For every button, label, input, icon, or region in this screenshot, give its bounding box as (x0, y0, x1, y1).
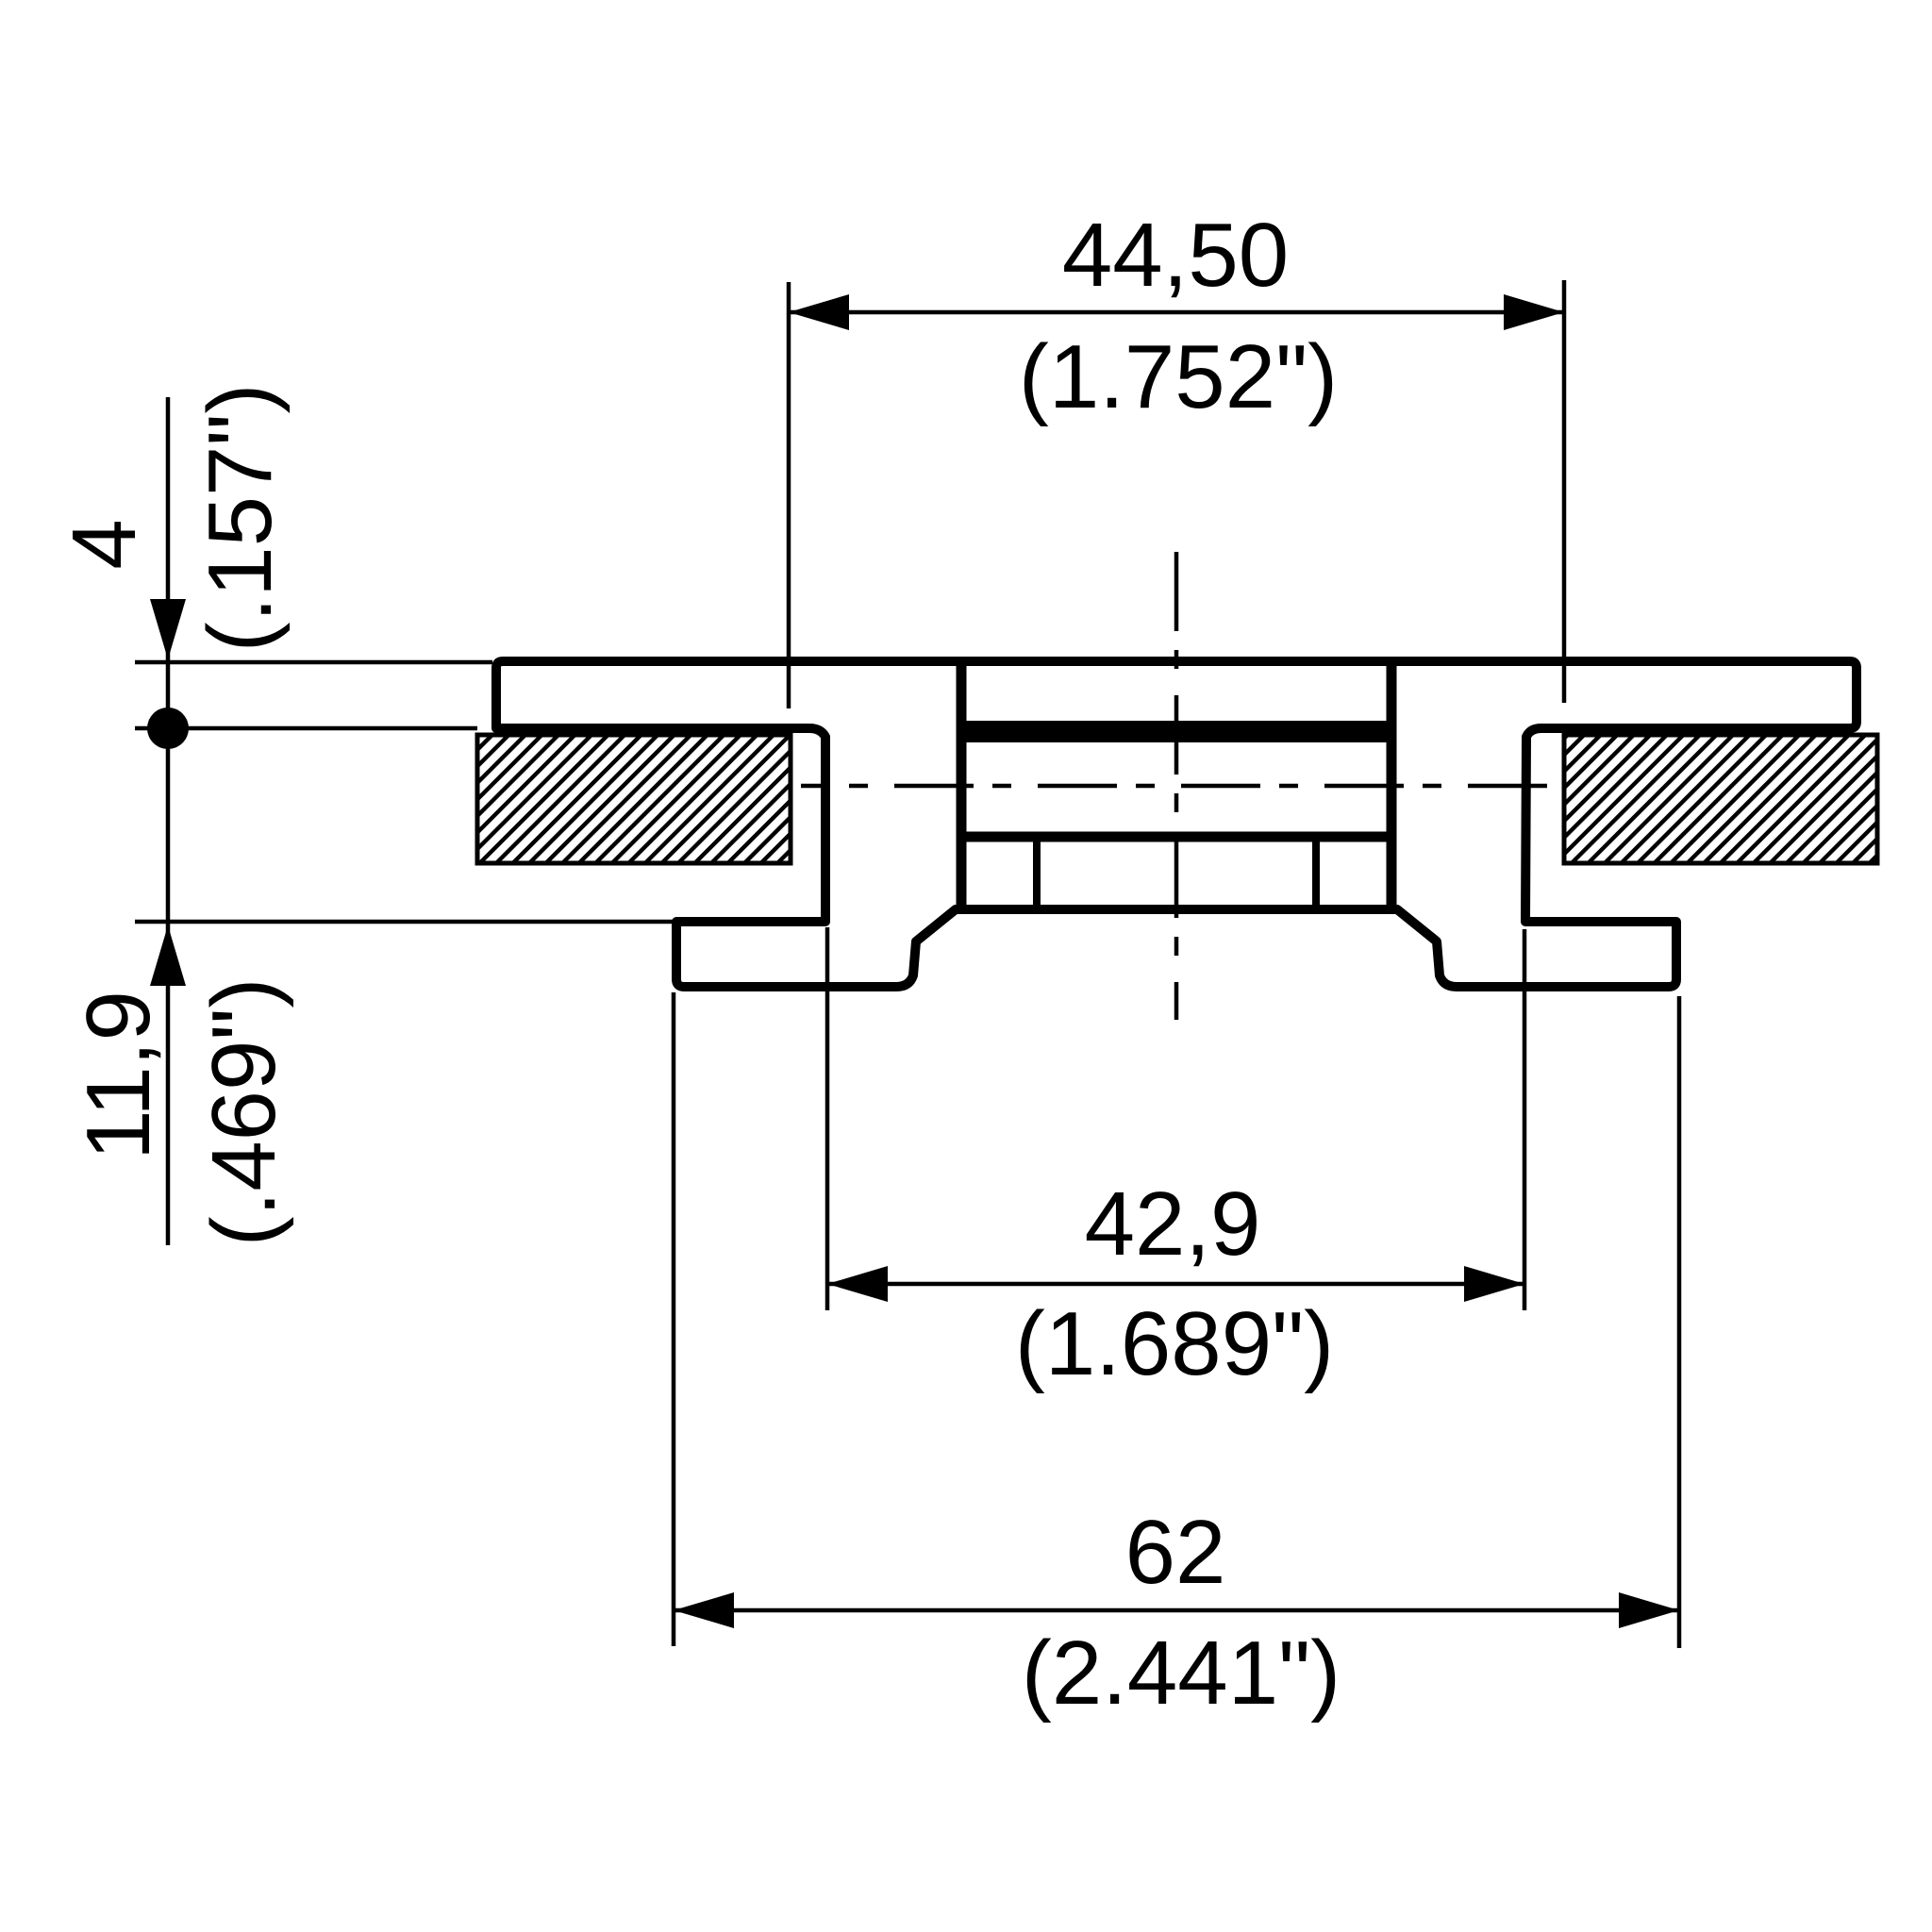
arrow down to top face (150, 599, 186, 659)
arrow left (789, 294, 849, 330)
outer profile: top plate, side arms, feet, bottom valleys, hub bottom (496, 661, 1857, 987)
hub left wall (957, 664, 967, 908)
svg-text:62: 62 (1125, 1502, 1226, 1603)
svg-text:4: 4 (54, 519, 155, 569)
dimension line vertical (166, 397, 171, 1245)
svg-text:(.469"): (.469") (193, 978, 294, 1247)
arrow right (1619, 1592, 1679, 1628)
extension line left (787, 282, 791, 708)
arrow left (674, 1592, 734, 1628)
arrow left (827, 1266, 888, 1302)
vertical centerline (1174, 552, 1179, 1020)
svg-text:(2.441"): (2.441") (1022, 1623, 1341, 1724)
svg-text:(1.689"): (1.689") (1015, 1293, 1334, 1394)
hub black band (contact plate) (966, 721, 1387, 742)
dimension line (789, 310, 1564, 315)
extension line left (672, 992, 676, 1646)
extension line left (825, 927, 830, 1310)
extension line at top face (135, 660, 492, 665)
extension line right (1677, 996, 1682, 1648)
hub inner step verticals (1033, 841, 1041, 906)
horizontal centerline (801, 784, 1547, 789)
right hatched block (1564, 735, 1877, 863)
dimension line (827, 1282, 1524, 1287)
extension line right (1562, 280, 1567, 703)
dimension line (674, 1608, 1679, 1613)
svg-text:11,9: 11,9 (68, 991, 169, 1160)
svg-text:(.157"): (.157") (190, 384, 291, 653)
arrow right (1504, 294, 1564, 330)
arrow right (1464, 1266, 1524, 1302)
svg-text:42,9: 42,9 (1085, 1174, 1261, 1274)
reference dot (147, 708, 189, 749)
extension line at plate underside (135, 726, 477, 731)
extension line at disc bottom (135, 920, 674, 924)
arrow up to disc bottom (150, 925, 186, 986)
svg-text:44,50: 44,50 (1062, 205, 1289, 306)
svg-text:(1.752"): (1.752") (1019, 326, 1338, 427)
extension line right (1523, 929, 1527, 1310)
hub right wall (1387, 664, 1397, 908)
hub mid shelf line (961, 832, 1391, 842)
left hatched block (477, 735, 791, 863)
